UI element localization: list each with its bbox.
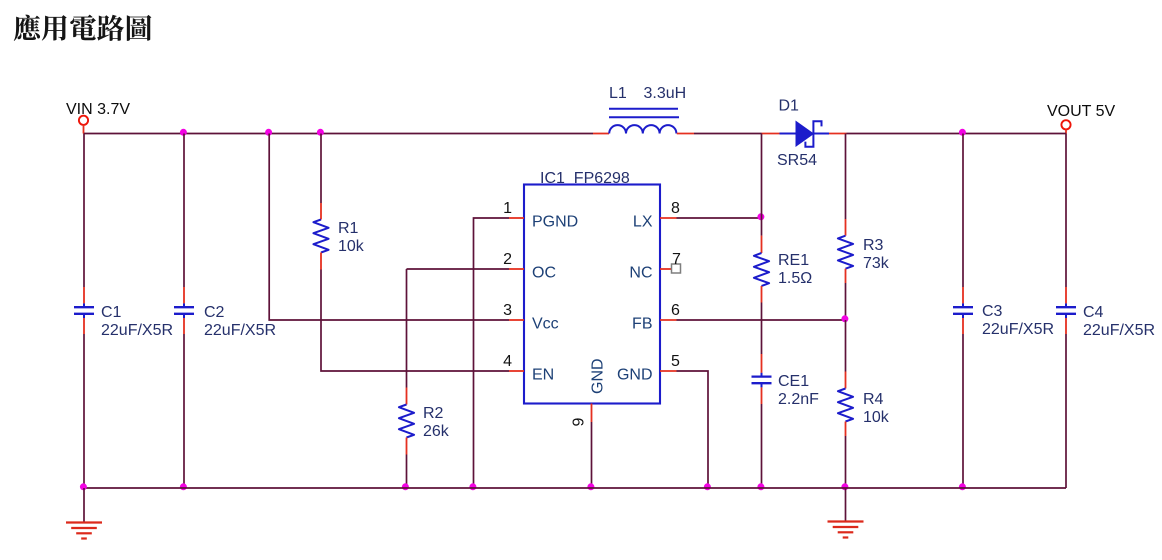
svg-text:5: 5 bbox=[671, 353, 680, 370]
svg-text:GND: GND bbox=[590, 358, 607, 394]
capacitor CE1 bbox=[761, 373, 763, 377]
pin 2 OC bbox=[509, 268, 524, 270]
svg-text:SR54: SR54 bbox=[777, 152, 817, 169]
resistor R2 bbox=[399, 405, 414, 438]
svg-text:R1: R1 bbox=[338, 220, 359, 237]
svg-text:9: 9 bbox=[571, 418, 588, 427]
resistor R4 bbox=[838, 389, 853, 422]
junction C3 gnd bbox=[959, 483, 966, 490]
junction R4 gnd bbox=[841, 483, 848, 490]
wire cathode to VOUT rail bbox=[847, 133, 1067, 135]
wire PGND net bbox=[474, 218, 510, 488]
wire VIN rail bbox=[84, 133, 593, 135]
wire C3 bottom bbox=[962, 334, 964, 488]
svg-text:2.2nF: 2.2nF bbox=[778, 391, 819, 408]
svg-text:LX: LX bbox=[633, 214, 653, 231]
pin 6 FB bbox=[660, 319, 677, 321]
svg-text:C2: C2 bbox=[204, 304, 225, 321]
svg-text:7: 7 bbox=[672, 251, 681, 268]
wire C1 top bbox=[83, 134, 85, 288]
svg-text:73k: 73k bbox=[863, 255, 890, 272]
wire CE1 bottom bbox=[761, 404, 763, 488]
resistor R1 bbox=[313, 220, 328, 253]
junction gnd1 bbox=[80, 483, 87, 490]
wire L1 to corner bbox=[694, 133, 762, 135]
svg-text:OC: OC bbox=[532, 265, 556, 282]
svg-text:IC1 FP6298: IC1 FP6298 bbox=[540, 170, 630, 187]
wire R3 col top bbox=[845, 134, 847, 220]
svg-text:C3: C3 bbox=[982, 303, 1003, 320]
svg-text:PGND: PGND bbox=[532, 214, 578, 231]
wire Vcc net bbox=[269, 134, 509, 321]
svg-text:4: 4 bbox=[503, 353, 512, 370]
junction Vcc rail bbox=[265, 129, 272, 136]
junction PGND gnd bbox=[469, 483, 476, 490]
junction R2 gnd bbox=[402, 483, 409, 490]
svg-text:R3: R3 bbox=[863, 237, 884, 254]
svg-text:EN: EN bbox=[532, 367, 554, 384]
capacitor C4 bbox=[1065, 303, 1067, 307]
pin 4 EN bbox=[509, 370, 524, 372]
svg-text:1.5Ω: 1.5Ω bbox=[778, 270, 812, 287]
pin 7 NC bbox=[660, 268, 672, 270]
capacitor C1 bbox=[83, 303, 85, 307]
wire C3 top bbox=[962, 134, 964, 288]
pin 8 LX bbox=[660, 217, 677, 219]
wire FB to R4 bbox=[845, 320, 847, 372]
svg-text:NC: NC bbox=[629, 265, 652, 282]
wire pin5 gnd bbox=[677, 371, 709, 488]
svg-text:C4: C4 bbox=[1083, 304, 1104, 321]
resistor R3 bbox=[838, 236, 853, 269]
node VIN terminal bbox=[79, 116, 88, 125]
svg-text:1: 1 bbox=[503, 200, 512, 217]
wire R2 bottom bbox=[406, 455, 408, 489]
wire ground rail bbox=[84, 487, 1066, 489]
title 應用電路圖 bbox=[14, 15, 152, 41]
svg-text:22uF/X5R: 22uF/X5R bbox=[204, 322, 276, 339]
capacitor C3 bbox=[962, 303, 964, 307]
svg-text:CE1: CE1 bbox=[778, 373, 809, 390]
wire LX col top bbox=[761, 134, 763, 236]
svg-text:6: 6 bbox=[671, 302, 680, 319]
wire LX horiz bbox=[677, 217, 762, 219]
junction C2 rail bbox=[180, 129, 187, 136]
wire R4 bottom bbox=[845, 436, 847, 488]
wire EN net bbox=[321, 270, 509, 372]
svg-text:8: 8 bbox=[671, 200, 680, 217]
svg-text:3: 3 bbox=[503, 302, 512, 319]
junction R1 rail bbox=[317, 129, 324, 136]
wire C4 bottom bbox=[1065, 334, 1067, 488]
svg-text:L1: L1 bbox=[609, 85, 627, 102]
svg-text:D1: D1 bbox=[779, 98, 800, 115]
inductor L1 bbox=[593, 133, 609, 135]
wire gnd2 drop bbox=[845, 488, 847, 521]
node VOUT terminal bbox=[1061, 120, 1070, 129]
svg-text:10k: 10k bbox=[338, 238, 365, 255]
diode D1 SR54 bbox=[762, 133, 780, 135]
junction C3 rail bbox=[959, 129, 966, 136]
junction pin9 gnd bbox=[587, 483, 594, 490]
op-amp U1: IC1 FP6298 body bbox=[524, 185, 660, 404]
svg-text:R2: R2 bbox=[423, 405, 444, 422]
svg-text:VIN 3.7V: VIN 3.7V bbox=[66, 101, 130, 118]
svg-text:26k: 26k bbox=[423, 423, 450, 440]
svg-text:Vcc: Vcc bbox=[532, 316, 559, 333]
svg-text:RE1: RE1 bbox=[778, 252, 809, 269]
pin 5 GND bbox=[660, 370, 677, 372]
wire C2 top bbox=[183, 134, 185, 288]
wire RE1 to CE1 bbox=[761, 303, 763, 355]
wire OC horiz bbox=[407, 268, 510, 270]
svg-text:22uF/X5R: 22uF/X5R bbox=[982, 321, 1054, 338]
wire gnd1 drop bbox=[83, 488, 85, 522]
svg-text:22uF/X5R: 22uF/X5R bbox=[1083, 322, 1155, 339]
pin 1 PGND bbox=[509, 217, 524, 219]
pin 3 Vcc bbox=[509, 319, 524, 321]
svg-text:GND: GND bbox=[617, 367, 653, 384]
wire R3 to FB bbox=[845, 283, 847, 320]
wire C4 top bbox=[1065, 134, 1067, 288]
capacitor C2 bbox=[183, 303, 185, 307]
svg-text:22uF/X5R: 22uF/X5R bbox=[101, 322, 173, 339]
svg-text:2: 2 bbox=[503, 251, 512, 268]
svg-text:C1: C1 bbox=[101, 304, 122, 321]
svg-text:R4: R4 bbox=[863, 391, 884, 408]
svg-text:3.3uH: 3.3uH bbox=[644, 85, 687, 102]
junction LX node bbox=[757, 213, 764, 220]
wire C2 bottom bbox=[183, 334, 185, 488]
wire R2 vert bbox=[406, 269, 408, 388]
svg-text:FB: FB bbox=[632, 316, 652, 333]
junction C2 gnd bbox=[180, 483, 187, 490]
resistor RE1 bbox=[754, 253, 769, 286]
junction CE1 gnd bbox=[757, 483, 764, 490]
svg-text:VOUT 5V: VOUT 5V bbox=[1047, 103, 1116, 120]
svg-text:10k: 10k bbox=[863, 409, 890, 426]
junction pin5 gnd bbox=[704, 483, 711, 490]
wire pin9 gnd bbox=[591, 422, 593, 488]
pin 9 GND bbox=[591, 404, 593, 423]
wire R1 top bbox=[320, 134, 322, 204]
junction FB node bbox=[841, 315, 848, 322]
wire FB horiz bbox=[677, 319, 846, 321]
wire C1 bottom bbox=[83, 334, 85, 488]
